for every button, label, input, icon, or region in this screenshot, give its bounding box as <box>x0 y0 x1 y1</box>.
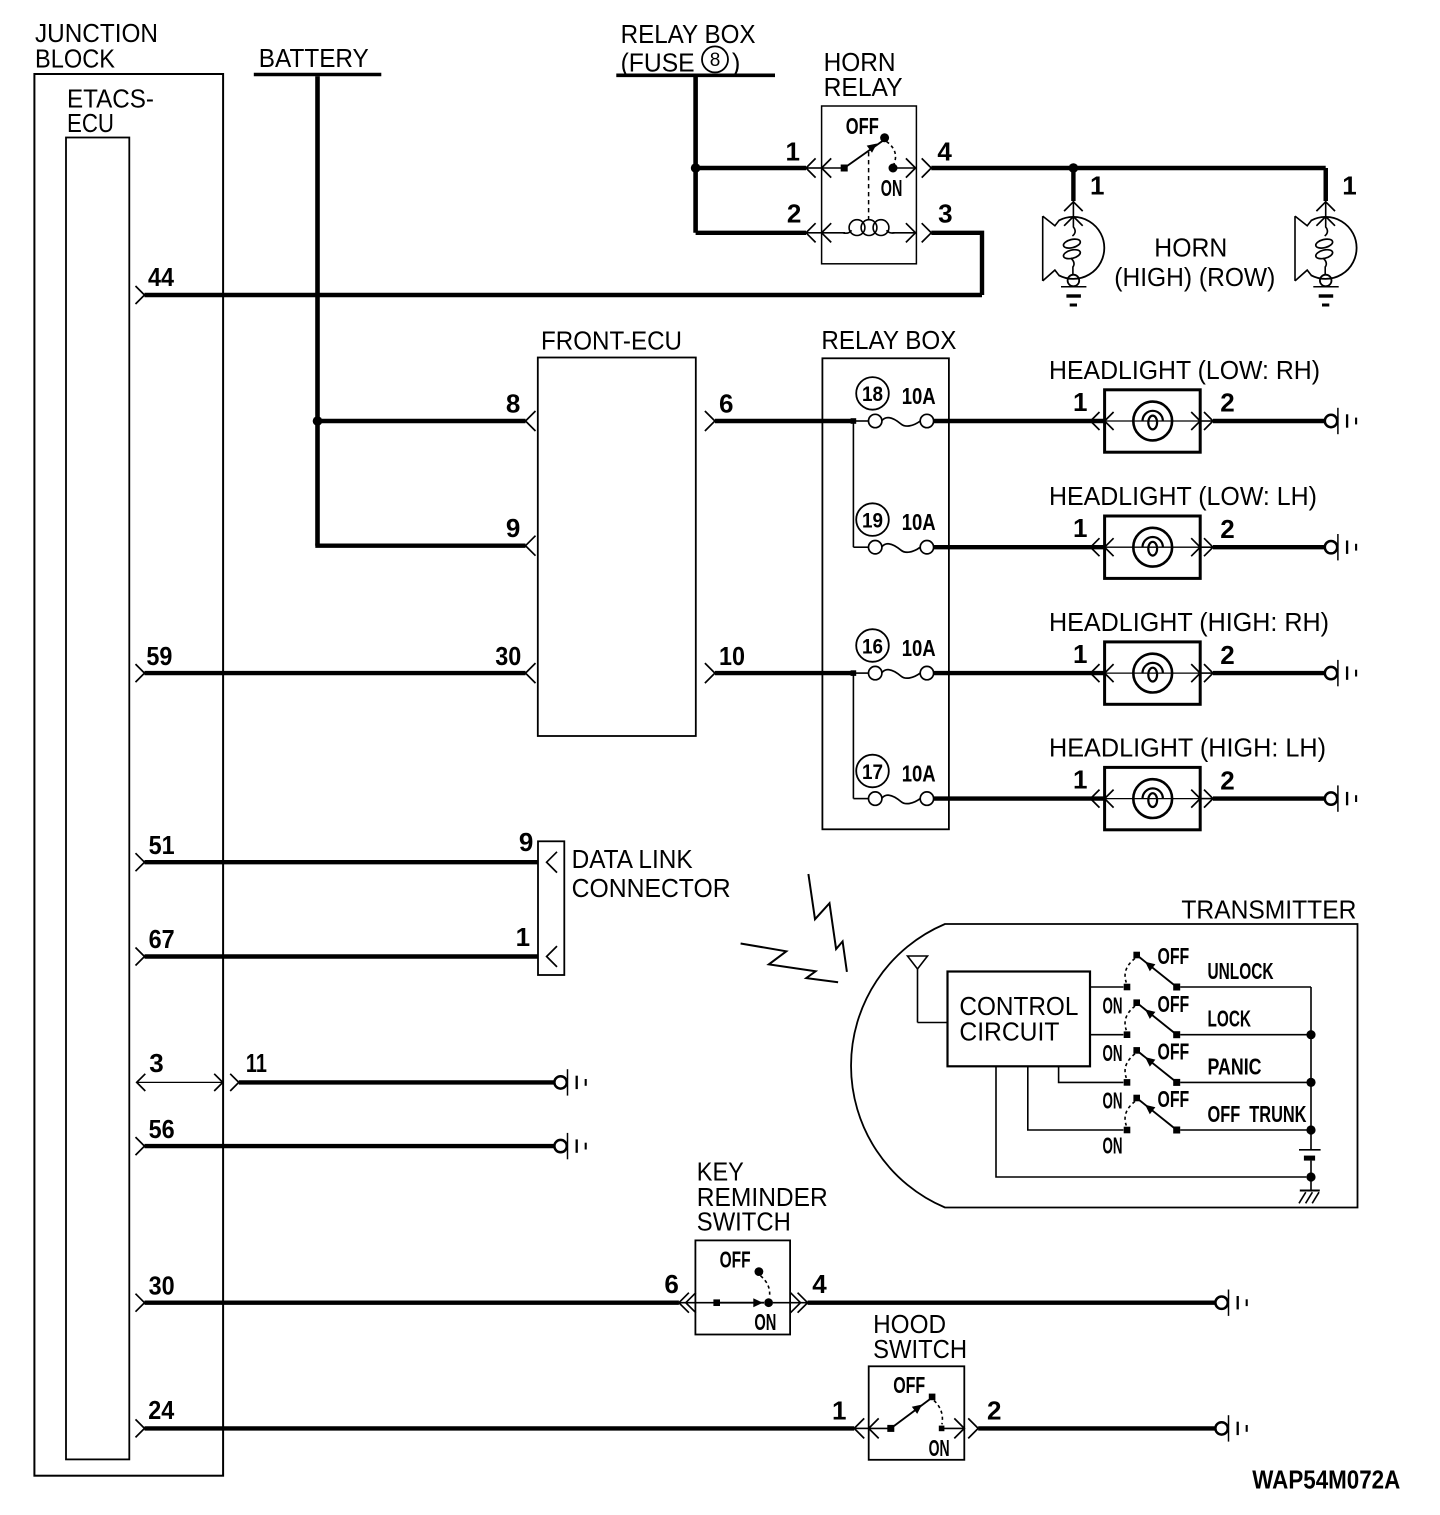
svg-text:9: 9 <box>519 827 533 857</box>
transmitter antenna <box>908 956 948 1023</box>
headlight pin 2 <box>1191 514 1235 556</box>
svg-text:RELAY BOX: RELAY BOX <box>821 327 956 355</box>
svg-text:HEADLIGHT (LOW: RH): HEADLIGHT (LOW: RH) <box>1049 357 1320 385</box>
wire pin 44 <box>145 293 983 297</box>
wire control circuit ground return <box>996 1066 1306 1177</box>
svg-text:1: 1 <box>1073 387 1087 417</box>
ETACS-ECU <box>66 86 154 1460</box>
svg-text:67: 67 <box>149 924 175 954</box>
headlight pin 1 <box>1073 765 1114 808</box>
wireless signal bolt 1 <box>741 944 839 983</box>
headlight pin 2 <box>1191 765 1235 807</box>
svg-text:11: 11 <box>246 1048 267 1078</box>
wire pin 51 to data link connector pin 9 <box>145 860 539 864</box>
svg-text:BATTERY: BATTERY <box>259 45 369 73</box>
horn symbol <box>1043 216 1105 286</box>
wire fuse 16 to headlight <box>934 671 1105 675</box>
svg-text:HORN: HORN <box>1154 235 1227 263</box>
svg-text:17: 17 <box>862 760 883 784</box>
svg-text:): ) <box>732 49 741 77</box>
svg-text:1: 1 <box>786 137 800 167</box>
wire pin 30 to key reminder switch <box>145 1300 679 1304</box>
svg-text:HEADLIGHT (LOW: LH): HEADLIGHT (LOW: LH) <box>1049 483 1317 511</box>
svg-text:4: 4 <box>937 137 952 167</box>
junction block <box>34 20 223 1476</box>
svg-text:10A: 10A <box>902 509 936 535</box>
svg-text:44: 44 <box>148 262 174 292</box>
svg-text:8: 8 <box>710 50 721 71</box>
ETACS pin 67 <box>136 924 175 965</box>
chassis ground transmitter <box>1299 1177 1320 1203</box>
svg-text:OFF: OFF <box>1158 991 1190 1017</box>
svg-text:OFF: OFF <box>846 113 879 139</box>
svg-text:WAP54M072A: WAP54M072A <box>1252 1465 1400 1495</box>
ETACS pin 59 <box>136 641 173 682</box>
wire battery to front-ecu pin 9 <box>318 544 526 546</box>
svg-text:RELAY BOX: RELAY BOX <box>621 21 756 49</box>
headlight box <box>1105 767 1201 829</box>
data link connector pin 1 <box>516 922 557 967</box>
relay box (fuse 8) feed <box>616 21 775 77</box>
svg-text:SWITCH: SWITCH <box>873 1336 967 1364</box>
wire pin 11 to ground <box>239 1080 555 1084</box>
svg-text:JUNCTION: JUNCTION <box>35 20 158 48</box>
svg-text:2: 2 <box>1220 640 1234 670</box>
svg-text:OFF: OFF <box>1158 1039 1190 1065</box>
svg-text:59: 59 <box>146 641 172 671</box>
svg-text:HOOD: HOOD <box>873 1311 946 1339</box>
svg-text:CONNECTOR: CONNECTOR <box>572 875 731 903</box>
svg-text:4: 4 <box>812 1269 827 1299</box>
front-ecu pin 9 <box>506 513 536 556</box>
key reminder switch <box>695 1158 827 1334</box>
wire key reminder to ground <box>808 1300 1216 1304</box>
svg-text:BLOCK: BLOCK <box>35 46 115 74</box>
svg-text:1: 1 <box>1073 639 1087 669</box>
wire right horn elbow <box>1323 168 1327 201</box>
svg-text:KEY: KEY <box>697 1158 744 1186</box>
svg-text:OFF TRUNK: OFF TRUNK <box>1208 1101 1307 1127</box>
ground (body) pin 11 <box>554 1069 585 1095</box>
svg-text:HEADLIGHT (HIGH: RH): HEADLIGHT (HIGH: RH) <box>1049 609 1329 637</box>
svg-text:CONTROL: CONTROL <box>959 993 1078 1021</box>
headlight bulb <box>1133 402 1172 441</box>
front-ecu pin 10 <box>705 641 745 683</box>
wire control to off-trunk switch <box>1028 1066 1124 1130</box>
svg-text:10: 10 <box>719 641 745 671</box>
headlight box <box>1105 642 1201 704</box>
wire fuse 17 to headlight <box>934 796 1105 800</box>
wire control to lock switch <box>1090 1034 1123 1036</box>
ground (body) pin 56 <box>554 1133 585 1159</box>
svg-text:ON: ON <box>1103 1088 1123 1114</box>
wire front-ecu pin 6 to relay box <box>715 419 823 423</box>
svg-text:(FUSE: (FUSE <box>621 49 695 77</box>
wire PANIC row to bus <box>1180 1081 1311 1083</box>
headlight box <box>1105 390 1201 452</box>
horn symbol <box>1295 216 1357 286</box>
svg-text:RELAY: RELAY <box>824 74 903 102</box>
wire headlight to ground <box>1200 546 1213 548</box>
svg-text:ON: ON <box>929 1435 950 1461</box>
front-ecu pin 6 <box>705 388 734 431</box>
svg-text:LOCK: LOCK <box>1208 1006 1252 1032</box>
transmitter battery cell <box>1299 1150 1321 1177</box>
svg-text:ECU: ECU <box>67 110 114 138</box>
svg-text:HORN: HORN <box>824 49 896 77</box>
ground (earth) under horn <box>1061 287 1086 305</box>
headlight box <box>1105 516 1201 578</box>
svg-text:6: 6 <box>719 388 733 418</box>
svg-text:FRONT-ECU: FRONT-ECU <box>541 328 682 356</box>
wire OFF TRUNK row to bus <box>1180 1129 1311 1131</box>
wire horn relay pin 3 elbow to pin 44 wire <box>931 233 982 295</box>
node off-trunk bus junction <box>1306 1125 1315 1134</box>
svg-text:3: 3 <box>149 1048 163 1078</box>
svg-text:2: 2 <box>1220 765 1234 795</box>
svg-text:SWITCH: SWITCH <box>697 1208 791 1236</box>
node lock bus junction <box>1306 1030 1315 1039</box>
hood switch pin 2 <box>954 1395 1001 1438</box>
horn label <box>1114 235 1275 292</box>
svg-text:HEADLIGHT (HIGH: LH): HEADLIGHT (HIGH: LH) <box>1049 734 1326 762</box>
headlight pin 2 <box>1191 640 1235 682</box>
wire LOCK row to bus <box>1180 1034 1311 1036</box>
horn relay pin 4 <box>906 137 953 178</box>
svg-text:ON: ON <box>1103 992 1123 1018</box>
ETACS pin 3 <box>149 1048 163 1078</box>
fuse 17 10A <box>853 755 935 806</box>
data link connector <box>538 841 731 975</box>
wire pin 24 to hood switch <box>145 1426 855 1430</box>
wire front-ecu pin 10 to relay box <box>715 671 823 675</box>
transmitter switch UNLOCK <box>1103 943 1190 1018</box>
wire horn relay pin 4 to horns <box>931 166 1325 170</box>
ETACS pin 56 <box>136 1114 175 1155</box>
battery <box>254 45 381 75</box>
headlight bulb <box>1133 654 1172 693</box>
svg-text:ON: ON <box>1103 1133 1123 1159</box>
key reminder pin 4 <box>791 1269 828 1313</box>
key reminder pin 6 <box>664 1269 695 1313</box>
svg-text:2: 2 <box>1220 514 1234 544</box>
horn relay pin 1 <box>786 137 832 178</box>
wire headlight to ground <box>1200 420 1213 422</box>
wire battery to front-ecu pin 8 <box>318 419 526 423</box>
horn relay switch contacts <box>822 113 917 201</box>
svg-text:ON: ON <box>881 175 903 201</box>
wire headlight to ground <box>1200 798 1213 800</box>
wire fuse link vertical <box>852 421 854 547</box>
svg-text:PANIC: PANIC <box>1208 1053 1262 1079</box>
svg-text:1: 1 <box>1342 171 1356 201</box>
horn relay pin 3 <box>906 199 953 243</box>
svg-text:CIRCUIT: CIRCUIT <box>959 1019 1059 1047</box>
node battery/ground junction <box>1306 1172 1315 1181</box>
wire fuse 18 to headlight <box>934 419 1105 423</box>
svg-text:ON: ON <box>1103 1040 1123 1066</box>
svg-text:18: 18 <box>862 382 883 406</box>
horn relay pin 2 <box>787 199 831 243</box>
hood switch <box>869 1311 967 1460</box>
wire hood switch to ground <box>978 1426 1215 1430</box>
svg-text:2: 2 <box>1220 388 1234 418</box>
svg-text:56: 56 <box>149 1114 175 1144</box>
front-ecu pin 8 <box>506 388 536 431</box>
transmitter outline <box>851 896 1357 1207</box>
svg-text:OFF: OFF <box>720 1247 751 1273</box>
wire UNLOCK row to bus <box>1180 986 1311 988</box>
wire battery vertical <box>315 76 320 545</box>
headlight bulb <box>1133 528 1172 567</box>
control circuit <box>948 972 1091 1067</box>
transmitter switch PANIC <box>1103 1039 1190 1114</box>
svg-text:OFF: OFF <box>1158 1086 1190 1112</box>
svg-text:6: 6 <box>664 1269 678 1299</box>
ground (body) pin 30 <box>1215 1290 1246 1316</box>
wire fuse8 vertical feed <box>693 77 698 233</box>
horn relay actuation link <box>868 152 870 223</box>
headlight pin 1 <box>1073 639 1114 682</box>
wire fuse 19 to headlight <box>934 545 1105 549</box>
svg-text:1: 1 <box>516 922 530 952</box>
ground (body) headlight <box>1325 534 1356 560</box>
hood switch pin 1 <box>832 1395 879 1438</box>
ETACS pin 51 <box>136 830 175 871</box>
svg-text:8: 8 <box>506 388 520 418</box>
fuse 18 10A <box>822 377 935 428</box>
node panic bus junction <box>1306 1078 1315 1087</box>
wire control to panic switch <box>1059 1066 1124 1082</box>
svg-text:TRANSMITTER: TRANSMITTER <box>1181 896 1356 924</box>
svg-text:2: 2 <box>987 1395 1001 1425</box>
key reminder switch contacts <box>679 1247 808 1336</box>
svg-text:1: 1 <box>1073 513 1087 543</box>
svg-text:1: 1 <box>1090 171 1104 201</box>
wire headlight to ground <box>1200 672 1213 674</box>
wire control to unlock switch <box>1090 986 1123 988</box>
svg-text:24: 24 <box>148 1395 174 1425</box>
svg-text:1: 1 <box>832 1395 846 1425</box>
fuse 16 10A <box>822 629 935 680</box>
wire horn drop <box>1323 168 1327 201</box>
horn relay coil <box>822 220 917 236</box>
svg-text:OFF: OFF <box>893 1372 925 1398</box>
svg-text:16: 16 <box>862 634 883 658</box>
svg-text:UNLOCK: UNLOCK <box>1208 958 1274 984</box>
svg-text:30: 30 <box>495 641 521 671</box>
wire pin 3 jumper arrow <box>137 1074 223 1091</box>
svg-text:ON: ON <box>754 1309 776 1335</box>
svg-text:10A: 10A <box>902 761 936 787</box>
node horn relay pin1 branch <box>691 163 701 173</box>
hood switch contacts <box>869 1372 965 1461</box>
svg-text:19: 19 <box>862 508 883 532</box>
wire pin 56 to ground <box>145 1144 555 1148</box>
transmitter switch LOCK <box>1103 991 1190 1066</box>
wire ETACS pin 59 to front-ecu pin 30 <box>145 671 526 675</box>
ground (body) headlight <box>1325 785 1356 811</box>
svg-text:2: 2 <box>787 199 801 229</box>
svg-text:51: 51 <box>149 830 175 860</box>
ground (body) pin 24 <box>1215 1415 1246 1441</box>
transmitter switch OFF TRUNK <box>1103 1086 1190 1158</box>
svg-text:30: 30 <box>149 1270 175 1300</box>
node battery/pin8 junction <box>313 416 323 426</box>
front-ecu <box>538 328 696 737</box>
wireless signal bolt 2 <box>808 874 847 972</box>
svg-text:9: 9 <box>506 513 520 543</box>
svg-text:1: 1 <box>1073 765 1087 795</box>
node horn 1 junction <box>1069 163 1079 173</box>
svg-text:DATA LINK: DATA LINK <box>572 846 693 874</box>
junction block pin 11 <box>230 1048 267 1091</box>
svg-text:(HIGH) (ROW): (HIGH) (ROW) <box>1114 264 1275 292</box>
svg-text:OFF: OFF <box>1158 943 1190 969</box>
ground (body) headlight <box>1325 660 1356 686</box>
wire transmitter right bus <box>1310 987 1312 1150</box>
headlight pin 1 <box>1073 387 1114 430</box>
svg-text:10A: 10A <box>902 635 936 661</box>
ETACS pin 30 <box>136 1270 175 1311</box>
svg-text:10A: 10A <box>902 383 936 409</box>
ground (earth) under horn <box>1313 287 1338 305</box>
headlight pin 1 <box>1073 513 1114 556</box>
wire horn relay pin 1 feed <box>696 166 806 170</box>
relay box <box>821 327 956 829</box>
horn relay <box>822 49 917 264</box>
ground (body) headlight <box>1325 408 1356 434</box>
headlight pin 2 <box>1191 388 1235 430</box>
front-ecu pin 30 <box>495 641 535 683</box>
wire horn drop <box>1071 168 1075 201</box>
wire horn relay pin 2 feed <box>696 231 806 235</box>
wire pin 67 to data link connector pin 1 <box>145 954 539 958</box>
headlight bulb <box>1133 779 1172 818</box>
fuse 19 10A <box>853 503 935 554</box>
ETACS pin 44 <box>136 262 175 304</box>
wire fuse link vertical <box>852 673 854 799</box>
ETACS pin 24 <box>136 1395 175 1438</box>
data link connector pin 9 <box>519 827 557 872</box>
svg-text:3: 3 <box>938 199 952 229</box>
